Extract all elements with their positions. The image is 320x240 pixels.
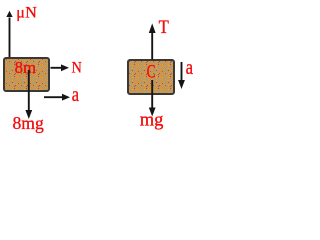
svg-text:a: a: [72, 83, 79, 106]
arrow muN (up from top-left corner of block): [9, 18, 11, 58]
svg-text:T: T: [159, 16, 169, 37]
svg-text:C: C: [147, 60, 156, 82]
svg-text:N: N: [72, 59, 82, 77]
arrow a (acceleration, below-right of left block): [44, 96, 63, 98]
svg-text:8m: 8m: [15, 58, 36, 77]
arrow a (acceleration, right of block C, pointing down): [181, 62, 183, 81]
arrow N (right from block right edge): [51, 67, 62, 69]
svg-text:μN: μN: [16, 5, 37, 22]
free-body diagram: blocks 8m and C with force arrows: [0, 0, 197, 137]
arrow 8mg (down from block centre): [28, 70, 30, 111]
svg-text:a: a: [186, 56, 194, 79]
arrow mg (down from block C centre): [151, 80, 153, 108]
svg-text:8mg: 8mg: [13, 113, 44, 133]
block C (right block): [128, 60, 174, 94]
arrow T (up from top of block C): [151, 33, 153, 60]
svg-text:mg: mg: [140, 111, 164, 131]
block 8m (left block): [4, 58, 49, 91]
